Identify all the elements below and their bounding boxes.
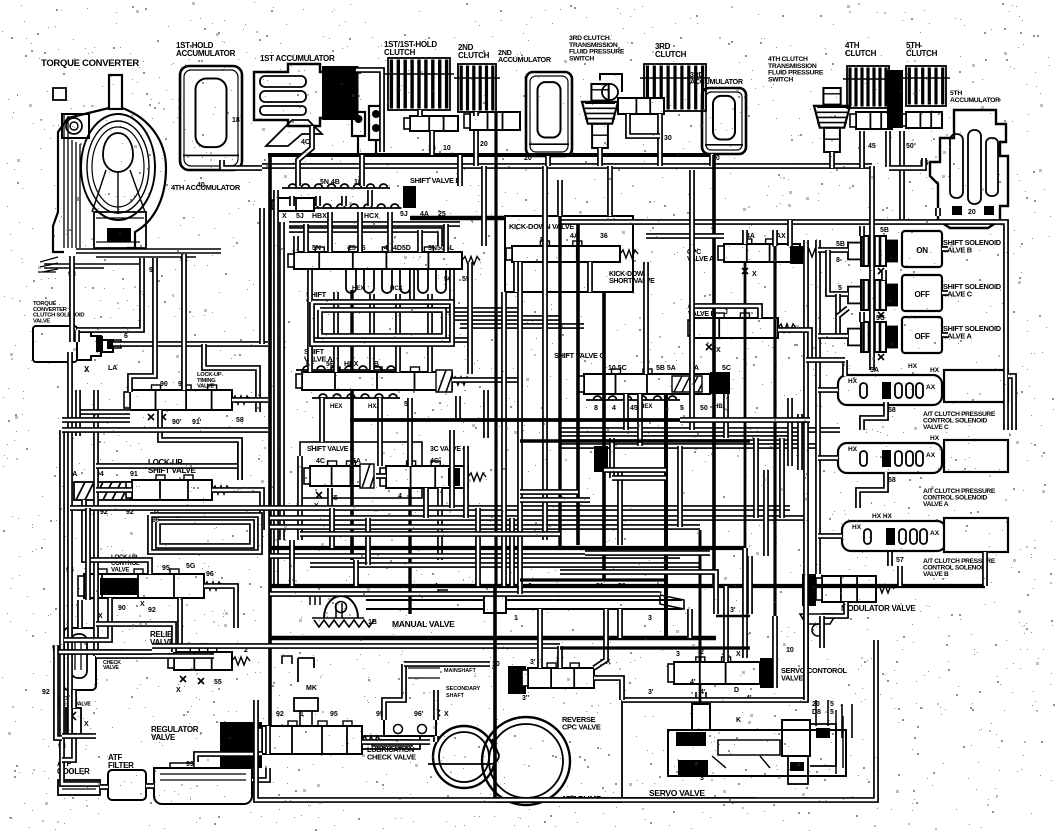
wire center v452 — [449, 430, 455, 508]
shift valve A hatch plug — [436, 370, 452, 392]
svg-text:58: 58 — [888, 407, 896, 414]
shift valve C — [578, 369, 728, 394]
wire 5th clutch drops — [899, 131, 905, 222]
cpc valve A — [718, 239, 818, 262]
svg-text:5G: 5G — [186, 563, 196, 570]
wire cpcB2 riser — [887, 552, 893, 566]
svg-text:8: 8 — [594, 405, 598, 412]
svg-text:20: 20 — [968, 209, 976, 216]
wire top thick bus — [268, 153, 714, 157]
wire v560 thick — [558, 216, 561, 548]
ports row 4 — [296, 361, 398, 370]
svg-text:5B 5A: 5B 5A — [656, 365, 676, 372]
wire cooler out — [62, 734, 74, 760]
svg-text:HEX: HEX — [352, 286, 364, 292]
svg-text:X: X — [140, 601, 145, 608]
wire bus h527 — [270, 524, 700, 530]
tc solenoid ports — [84, 327, 126, 374]
wire bus thick h548 — [270, 546, 745, 550]
torque converter label — [41, 58, 139, 69]
regulator tail — [362, 736, 499, 764]
1st accumulator — [254, 64, 356, 146]
wire cpcA2 feed — [818, 455, 838, 461]
4th accumulator label — [171, 183, 241, 192]
svg-text:95: 95 — [330, 711, 338, 718]
mainshaft label — [408, 668, 476, 678]
wire lockup h466 — [96, 463, 240, 469]
shift valve B label — [306, 290, 335, 306]
svg-text:5A: 5A — [870, 367, 879, 374]
shift solenoid valve A — [848, 322, 898, 352]
shift valve C under ports — [586, 396, 727, 412]
svg-text:HX HX: HX HX — [872, 513, 893, 520]
svg-text:8: 8 — [836, 257, 840, 264]
wire v800 — [797, 414, 803, 470]
wire bus h446 — [560, 443, 818, 449]
port 5 — [838, 285, 842, 292]
kick-down valve — [506, 241, 638, 262]
wire lockup mesh d — [204, 586, 236, 628]
torque converter check valve label — [103, 649, 135, 671]
row3 labels — [312, 245, 455, 252]
wire fill l — [677, 446, 683, 527]
wire bus h518 — [270, 515, 806, 521]
svg-text:LUBRICATIONCHECK VALVE: LUBRICATIONCHECK VALVE — [367, 745, 416, 761]
svg-text:MANUAL VALVE: MANUAL VALVE — [392, 619, 455, 629]
wire x300 drop — [297, 456, 303, 540]
manual valve detent — [310, 596, 374, 627]
wire right edge loop — [1008, 376, 1014, 430]
svg-text:5B: 5B — [880, 227, 889, 234]
wire fill a — [457, 155, 463, 186]
shift valve C black plug — [710, 372, 730, 394]
wire fill i — [353, 560, 359, 586]
wire tc left spine — [72, 256, 214, 656]
2nd accumulator — [526, 72, 572, 156]
wire 2nd acc drop — [545, 156, 551, 166]
svg-text:AX: AX — [926, 452, 936, 459]
hx label c — [930, 367, 940, 374]
3rd clutch pressure switch elbow — [600, 74, 622, 100]
wire mesh h470 — [604, 467, 666, 473]
main spool row 3 — [288, 247, 480, 269]
wire mesh h318 — [452, 315, 560, 321]
wire v604 thick — [602, 292, 606, 580]
servo control ports — [676, 647, 794, 702]
port 45 — [868, 143, 876, 150]
wire 3rd acc drop — [709, 154, 715, 166]
shift valve C label — [554, 351, 605, 360]
shift valve E label — [307, 446, 355, 453]
modulator valve — [816, 576, 894, 602]
wire fill n — [982, 552, 988, 586]
wire row2 wrap a — [289, 221, 460, 227]
cpc valve B — [688, 313, 796, 338]
svg-text:99: 99 — [186, 761, 194, 768]
valve below 4th clutch — [850, 112, 892, 129]
svg-text:58: 58 — [888, 477, 896, 484]
port 1B — [368, 619, 377, 626]
wire bus thick h638 — [270, 636, 716, 641]
port 30 — [664, 135, 672, 142]
torque converter clutch solenoid valve — [33, 326, 121, 362]
port 15-10 — [428, 145, 451, 152]
svg-text:X: X — [282, 213, 287, 220]
A/T clutch pressure control solenoid valve C label — [923, 411, 996, 431]
1st/1st-hold clutch — [384, 58, 454, 110]
wire left v56 — [56, 646, 62, 738]
svg-text:K: K — [736, 717, 741, 724]
svg-text:3N5C5L: 3N5C5L — [428, 245, 455, 252]
valve below 1st clutch — [404, 116, 458, 131]
x drain C — [878, 312, 884, 318]
servo valve body — [668, 692, 846, 784]
wire cpcB2 feed — [818, 533, 842, 539]
port 20c — [712, 155, 720, 162]
modulator drain — [800, 614, 836, 636]
servo port ticks — [816, 700, 852, 738]
shift valve A spool — [296, 367, 470, 390]
wire sol area v845 — [842, 360, 848, 376]
wire v806 — [622, 240, 806, 700]
svg-text:X: X — [716, 347, 721, 354]
wire sol area h360 — [806, 357, 845, 363]
svg-text:30: 30 — [664, 135, 672, 142]
wire check pair drop — [358, 136, 376, 155]
wire v612 — [609, 438, 615, 478]
wire 3rd clutch drop — [628, 114, 660, 166]
wire node 6 run — [113, 341, 268, 347]
shift valve E box — [300, 442, 422, 498]
svg-text:X: X — [752, 271, 757, 278]
1st/1st-hold clutch label — [384, 40, 437, 57]
port 5C — [836, 315, 885, 336]
wire y216 return — [560, 222, 1006, 430]
svg-text:5N 4B: 5N 4B — [320, 179, 340, 186]
svg-text:5: 5 — [830, 709, 834, 716]
wire manual drop 4 — [617, 609, 623, 638]
wire left col g — [67, 690, 73, 736]
ports row 2 — [276, 204, 446, 220]
svg-text:4': 4' — [690, 679, 696, 686]
port 70 — [354, 69, 362, 76]
wire 5th acc elbow — [935, 208, 941, 216]
wire 1st clutch drop — [420, 110, 432, 155]
svg-text:J: J — [724, 309, 728, 316]
wire x276 spine — [273, 190, 279, 586]
svg-text:3': 3' — [648, 689, 654, 696]
svg-text:HX: HX — [848, 446, 858, 453]
svg-text:TORQUE CONVERTER: TORQUE CONVERTER — [41, 58, 139, 69]
cooler check valve — [66, 708, 89, 734]
x drain A — [878, 354, 884, 360]
wire fill e — [467, 262, 473, 374]
wire cpcB wrap — [694, 306, 760, 318]
svg-text:HCX: HCX — [390, 286, 403, 292]
wire v745 — [744, 262, 747, 548]
wire cpcA risers — [745, 220, 790, 246]
wire mesh h326 — [460, 323, 584, 329]
wire cpcB right — [778, 330, 810, 360]
wire solC loop — [838, 294, 848, 336]
svg-text:5C: 5C — [876, 315, 885, 322]
4th clutch pressure switch label — [768, 56, 824, 83]
wire 99 up — [196, 754, 262, 762]
wire kick-down top — [557, 180, 563, 216]
3c valve ports — [430, 458, 439, 465]
wire v790 — [787, 398, 793, 466]
wire right h616 — [716, 615, 750, 617]
svg-text:HX: HX — [908, 363, 918, 370]
wire row2 thick link — [410, 216, 505, 221]
servo valve enclosure — [622, 700, 756, 798]
3rd clutch pressure switch label — [569, 35, 625, 62]
wire right v766 — [763, 470, 769, 556]
wire lub to pump — [433, 736, 439, 742]
port 40 — [197, 182, 205, 189]
svg-text:X: X — [176, 687, 181, 694]
regulator stem — [276, 698, 338, 726]
wire pump inner — [265, 726, 271, 754]
wire lockup loop b — [78, 390, 130, 436]
wire left h736 — [62, 733, 96, 739]
wire v726 — [723, 394, 729, 438]
wire filter to pan — [146, 783, 154, 789]
wire mesh h580 — [520, 578, 666, 581]
wire top bus 2 — [262, 163, 872, 169]
svg-text:18: 18 — [232, 117, 240, 124]
wire fill h — [423, 488, 429, 518]
wire shiftA drop a — [350, 390, 354, 560]
wire fill c — [303, 224, 309, 252]
port 10 — [492, 661, 500, 668]
shift solenoid valve C label — [943, 282, 1002, 298]
A/T clutch pressure control solenoid valve A body — [838, 443, 942, 473]
manual valve spool — [366, 590, 684, 613]
wire servo right loop — [772, 616, 778, 688]
torque converter clutch solenoid valve label — [33, 301, 84, 324]
lock-up timing valve label — [197, 372, 222, 390]
shift valve C hatch — [672, 376, 702, 392]
svg-text:5J: 5J — [296, 213, 304, 220]
wire 1st acc black riser — [354, 66, 359, 120]
row2 left cap — [272, 198, 314, 211]
relief valve — [168, 647, 250, 670]
oil pan — [154, 763, 252, 804]
regulator valve plug — [220, 722, 262, 768]
wire nested loop mid2 — [320, 310, 444, 336]
wire servo box bottom — [495, 797, 622, 803]
wire fill d — [443, 224, 449, 252]
svg-text:96': 96' — [414, 711, 424, 718]
port 50 — [906, 143, 914, 150]
3c valve — [380, 461, 486, 488]
wire cpcA top h — [646, 233, 724, 239]
comb under row 3 a — [346, 270, 446, 293]
port 4C — [301, 139, 310, 146]
wire manual drop 3 — [594, 609, 606, 668]
port 3 servo — [648, 679, 696, 696]
shift solenoid valve B — [848, 236, 898, 266]
svg-text:SHAFT: SHAFT — [446, 693, 465, 699]
wire mod drain loop — [819, 616, 825, 648]
svg-text:6: 6 — [124, 333, 128, 340]
wire center v368 — [365, 518, 371, 565]
wire solB feed — [818, 247, 848, 253]
lock-up shift valve — [126, 475, 230, 500]
atf cooler label — [57, 759, 90, 776]
svg-text:MK: MK — [306, 685, 317, 692]
shift valve E drain — [314, 492, 338, 510]
2nd accumulator label — [498, 48, 552, 64]
wire x362 riser — [359, 155, 365, 186]
svg-text:SHIFT VALVE D: SHIFT VALVE D — [410, 176, 461, 185]
modulator valve label — [841, 604, 916, 613]
svg-text:45: 45 — [868, 143, 876, 150]
wire shiftA drop b — [319, 398, 325, 442]
shift solenoid valve A label — [943, 324, 1002, 340]
4th clutch — [843, 66, 893, 108]
svg-text:92: 92 — [276, 711, 284, 718]
wire 1st-hold bottom connector — [222, 160, 262, 168]
wire 70 pipe — [356, 70, 382, 152]
wire center v466 — [463, 446, 469, 518]
4th clutch pressure switch — [814, 88, 850, 152]
svg-text:92: 92 — [42, 689, 50, 696]
wire tcc check feed — [77, 600, 83, 628]
port 99 — [186, 761, 194, 768]
svg-text:HX: HX — [852, 524, 862, 531]
wire mesh h500 — [520, 497, 590, 503]
wire 4c riser — [298, 126, 312, 186]
reverse cpc valve label — [562, 715, 601, 731]
wire fill f — [455, 396, 461, 420]
wire lockup v240 — [237, 442, 243, 480]
wire v665 thick — [664, 394, 668, 638]
wire mesh h572 — [560, 572, 716, 614]
port 5A right — [870, 363, 918, 374]
svg-text:4: 4 — [398, 493, 402, 500]
svg-text:91: 91 — [130, 471, 138, 478]
wire sol risers — [862, 226, 884, 322]
wire lockup loop a — [204, 344, 258, 412]
wire kick-down drop b — [587, 262, 593, 292]
wire timing to shift — [160, 410, 240, 480]
cpc valve A label — [687, 249, 714, 263]
wire v578 thick — [576, 224, 580, 545]
shift solenoid valve A box — [902, 317, 942, 353]
3rd clutch pressure switch — [582, 84, 618, 148]
wire bus h652 — [56, 649, 152, 655]
svg-text:3'': 3'' — [700, 775, 708, 782]
wire left loop h420 — [62, 417, 130, 423]
svg-text:3': 3' — [530, 659, 536, 666]
lock-up shift valve hatch — [74, 482, 132, 500]
1st-hold accumulator — [180, 66, 242, 170]
3rd accumulator label — [690, 70, 744, 86]
wire modulator to servo — [803, 590, 809, 700]
wire spine branch x262 — [259, 208, 265, 344]
port 20b — [524, 155, 532, 162]
servo valve label — [649, 788, 705, 798]
svg-text:4C: 4C — [316, 458, 325, 465]
cpc A ports — [742, 233, 786, 278]
wire v520 — [517, 262, 523, 594]
lock-up shift valve label — [148, 458, 196, 475]
lock-up control valve label — [111, 554, 140, 573]
wire lockup nest loop2 — [158, 522, 252, 546]
A/T clutch pressure control solenoid valve B label — [923, 558, 996, 578]
wire row2 drop c — [330, 212, 390, 252]
wire row1 to row2 loops — [292, 190, 370, 206]
wire x62 spine — [62, 430, 100, 784]
wire fill b — [481, 166, 487, 246]
shift solenoid valve B box — [902, 231, 942, 267]
svg-text:HBX: HBX — [312, 213, 327, 220]
reverse ports — [522, 657, 611, 702]
svg-text:92: 92 — [148, 607, 156, 614]
wire v782 — [779, 438, 785, 518]
svg-text:90': 90' — [172, 419, 182, 426]
hx label a — [930, 435, 940, 442]
svg-text:MODULATOR VALVE: MODULATOR VALVE — [841, 604, 916, 613]
hx label b — [872, 513, 893, 520]
wire x282 spine — [279, 222, 285, 540]
ports row 4 under — [312, 394, 413, 410]
svg-text:90: 90 — [118, 605, 126, 612]
5th clutch label — [906, 41, 938, 58]
svg-text:20: 20 — [480, 141, 488, 148]
shift valve D label — [410, 176, 461, 185]
manual ports — [434, 583, 736, 622]
5th accumulator label — [950, 90, 1000, 104]
wire row2 wrap b — [289, 230, 440, 246]
lock-up shift ports — [68, 471, 181, 524]
servo control valve — [668, 657, 760, 684]
wire right v756 — [753, 438, 759, 518]
svg-text:HEX: HEX — [330, 404, 342, 410]
port 90 — [149, 267, 157, 274]
svg-text:5: 5 — [838, 285, 842, 292]
2nd clutch — [454, 64, 500, 112]
wire v872 — [869, 166, 875, 370]
1st accumulator label — [260, 54, 335, 63]
manual valve label — [392, 619, 455, 629]
wire 4th valve drop — [859, 131, 865, 168]
wire right h648 — [560, 646, 750, 649]
wire pump enclosure — [256, 640, 876, 800]
wire 2nd clutch drop — [473, 112, 479, 166]
svg-text:HX: HX — [930, 367, 940, 374]
wire 5th acc connect — [889, 158, 924, 168]
wire sol box stubs — [942, 249, 948, 335]
wire v692 long — [689, 170, 695, 430]
wire main spine x270 — [268, 155, 272, 726]
wire v545 — [542, 166, 548, 540]
wire lockup nest loop1 — [150, 515, 260, 552]
svg-text:LA: LA — [108, 365, 117, 372]
wire tc inner drop — [77, 258, 142, 342]
wire pan to regulator — [252, 768, 268, 780]
wire cooler drop — [71, 690, 77, 708]
svg-text:58: 58 — [236, 417, 244, 424]
wire bus h430 — [62, 427, 840, 433]
valve below 5th clutch — [900, 112, 942, 128]
wire v700 — [699, 530, 702, 662]
shift solenoid valve B label — [943, 238, 1002, 254]
wire secondary bracket — [433, 690, 439, 720]
port E5 — [920, 160, 929, 167]
